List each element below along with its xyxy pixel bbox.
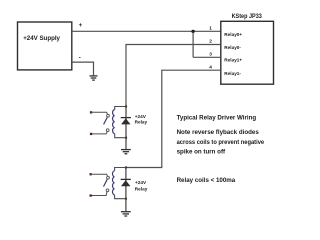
svg-text:spike on turn off: spike on turn off bbox=[177, 148, 226, 155]
svg-text:+24V Supply: +24V Supply bbox=[23, 35, 60, 42]
ground (relay2) bbox=[121, 212, 131, 216]
node: relay1 top junction bbox=[125, 105, 127, 107]
wire: junction down to pin3 bbox=[192, 31, 194, 57]
relay2 contact switch bbox=[90, 173, 110, 197]
wire: supply - to ground bbox=[72, 62, 94, 75]
svg-text:Relay: Relay bbox=[135, 120, 148, 125]
node: relay1 bottom junction bbox=[125, 137, 127, 139]
svg-text:-: - bbox=[79, 54, 81, 61]
svg-text:Relay1-: Relay1- bbox=[224, 71, 241, 76]
ground (relay1) bbox=[121, 150, 131, 154]
svg-text:Relay coils < 100ma: Relay coils < 100ma bbox=[177, 177, 236, 184]
svg-text:+: + bbox=[79, 22, 83, 29]
svg-text:KStep JP33: KStep JP33 bbox=[232, 13, 263, 20]
wire: pin4 to relay2 bbox=[126, 70, 221, 167]
svg-text:Relay: Relay bbox=[135, 186, 148, 191]
node: relay2 top junction bbox=[125, 166, 127, 168]
wire: relay2 main vertical bbox=[125, 168, 127, 212]
svg-text:across coils to prevent negati: across coils to prevent negative bbox=[177, 139, 265, 146]
node: relay2 bottom junction bbox=[125, 198, 127, 200]
svg-text:2: 2 bbox=[209, 39, 212, 45]
diode D2 flyback bbox=[121, 179, 131, 186]
svg-text:+24V: +24V bbox=[135, 114, 147, 119]
svg-text:Relay0+: Relay0+ bbox=[224, 32, 242, 37]
relay1 contact switch bbox=[90, 111, 109, 135]
wire: relay1 coil branch top bbox=[115, 107, 126, 110]
+24V Supply box bbox=[18, 22, 72, 70]
ground (supply) bbox=[90, 76, 98, 80]
coil K2 (relay2 coil) bbox=[113, 171, 115, 195]
node: junction dot on +24V rail bbox=[191, 30, 194, 33]
svg-text:Note reverse flyback diodes: Note reverse flyback diodes bbox=[177, 129, 260, 136]
svg-text:Typical Relay Driver Wiring: Typical Relay Driver Wiring bbox=[177, 115, 257, 122]
wire: pin2 to relay1 bbox=[126, 45, 221, 107]
wire: pin3 stub bbox=[193, 56, 221, 58]
wire: relay2 coil branch bottom bbox=[115, 195, 126, 199]
KStep JP33 box bbox=[221, 21, 274, 84]
svg-text:+24V: +24V bbox=[135, 180, 147, 185]
wire: relay2 coil branch top bbox=[115, 168, 126, 171]
svg-text:1: 1 bbox=[209, 26, 212, 32]
svg-text:Relay0-: Relay0- bbox=[224, 45, 241, 50]
wire: supply + to KStep pin1 bbox=[72, 30, 221, 32]
svg-text:Relay1+: Relay1+ bbox=[224, 58, 242, 63]
coil K1 (relay1 coil) bbox=[113, 110, 115, 134]
wire: relay1 main vertical bbox=[125, 107, 127, 150]
wire: relay1 coil branch bottom bbox=[115, 134, 126, 138]
diode D1 flyback bbox=[121, 118, 131, 125]
